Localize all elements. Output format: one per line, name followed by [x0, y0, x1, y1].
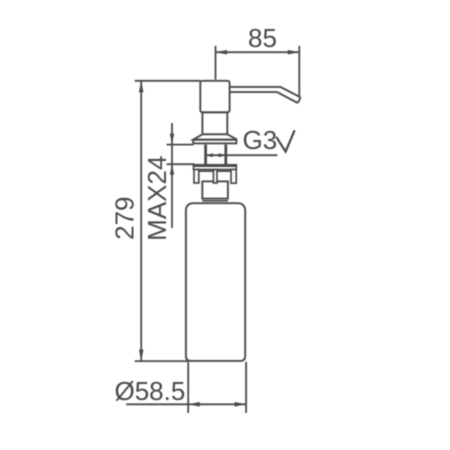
dimension 279 bottom extension line [135, 360, 188, 362]
dimension MAX24 down arrow [170, 134, 174, 145]
flange base plate [193, 140, 236, 144]
dimension 85 left extension line [215, 46, 217, 80]
svg-text:G3: G3 [243, 125, 278, 155]
dimension 279 bottom arrow [139, 350, 144, 362]
nut top plate [194, 165, 237, 170]
dimension MAX24 line [171, 123, 173, 228]
svg-text:85: 85 [248, 23, 277, 53]
spout top edge [230, 87, 301, 98]
pump head cap [200, 81, 229, 113]
dimension 58.5 left arrow [188, 402, 200, 407]
dimension 58.5 line [126, 403, 246, 405]
thread left line [204, 145, 207, 166]
dimension MAX24 lower extension line [167, 163, 195, 165]
nut top plate dark edge [194, 164, 237, 167]
dimension 85 right arrow [288, 50, 300, 55]
nut center tab [213, 170, 217, 184]
dimension 58.5 left extension line [187, 362, 189, 413]
nut lower box [202, 181, 228, 198]
nut recess line left [199, 170, 214, 172]
dimension MAX24 upper extension line [167, 144, 194, 146]
pump neck [202, 112, 227, 134]
thread dimension double arrow with leader [206, 154, 278, 156]
dimension 58.5 right extension line [245, 362, 247, 413]
label check V [276, 130, 294, 151]
dimension 85 right extension line [298, 46, 300, 96]
dimension 279 top extension line [135, 80, 201, 82]
flange cone [193, 134, 237, 139]
dimension 58.5 right arrow [235, 402, 247, 407]
dimension 85 line [216, 51, 300, 53]
svg-text:Ø58.5: Ø58.5 [115, 376, 186, 406]
nut lower box bottom band [202, 200, 228, 202]
nut recess line right [217, 170, 231, 172]
spout bottom edge [230, 92, 298, 103]
spout end face [298, 97, 301, 103]
dimension 85 left arrow [216, 50, 228, 55]
svg-text:279: 279 [110, 197, 140, 240]
dimension 279 top arrow [139, 81, 144, 93]
svg-text:MAX24: MAX24 [142, 156, 172, 241]
dimension 279 line [140, 81, 142, 361]
dimension MAX24 up arrow [170, 164, 174, 175]
thread right line [224, 145, 227, 166]
bottle body [186, 203, 245, 361]
nut left tab [194, 170, 199, 184]
nut right tab [231, 170, 236, 184]
